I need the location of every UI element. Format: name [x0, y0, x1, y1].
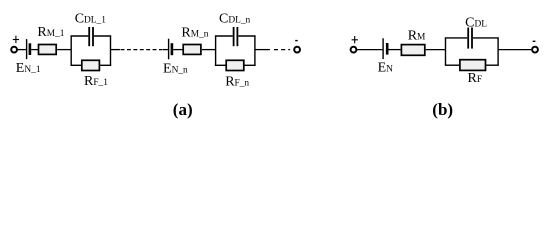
svg-text:(b): (b) [432, 100, 453, 119]
svg-text:(a): (a) [173, 100, 193, 119]
